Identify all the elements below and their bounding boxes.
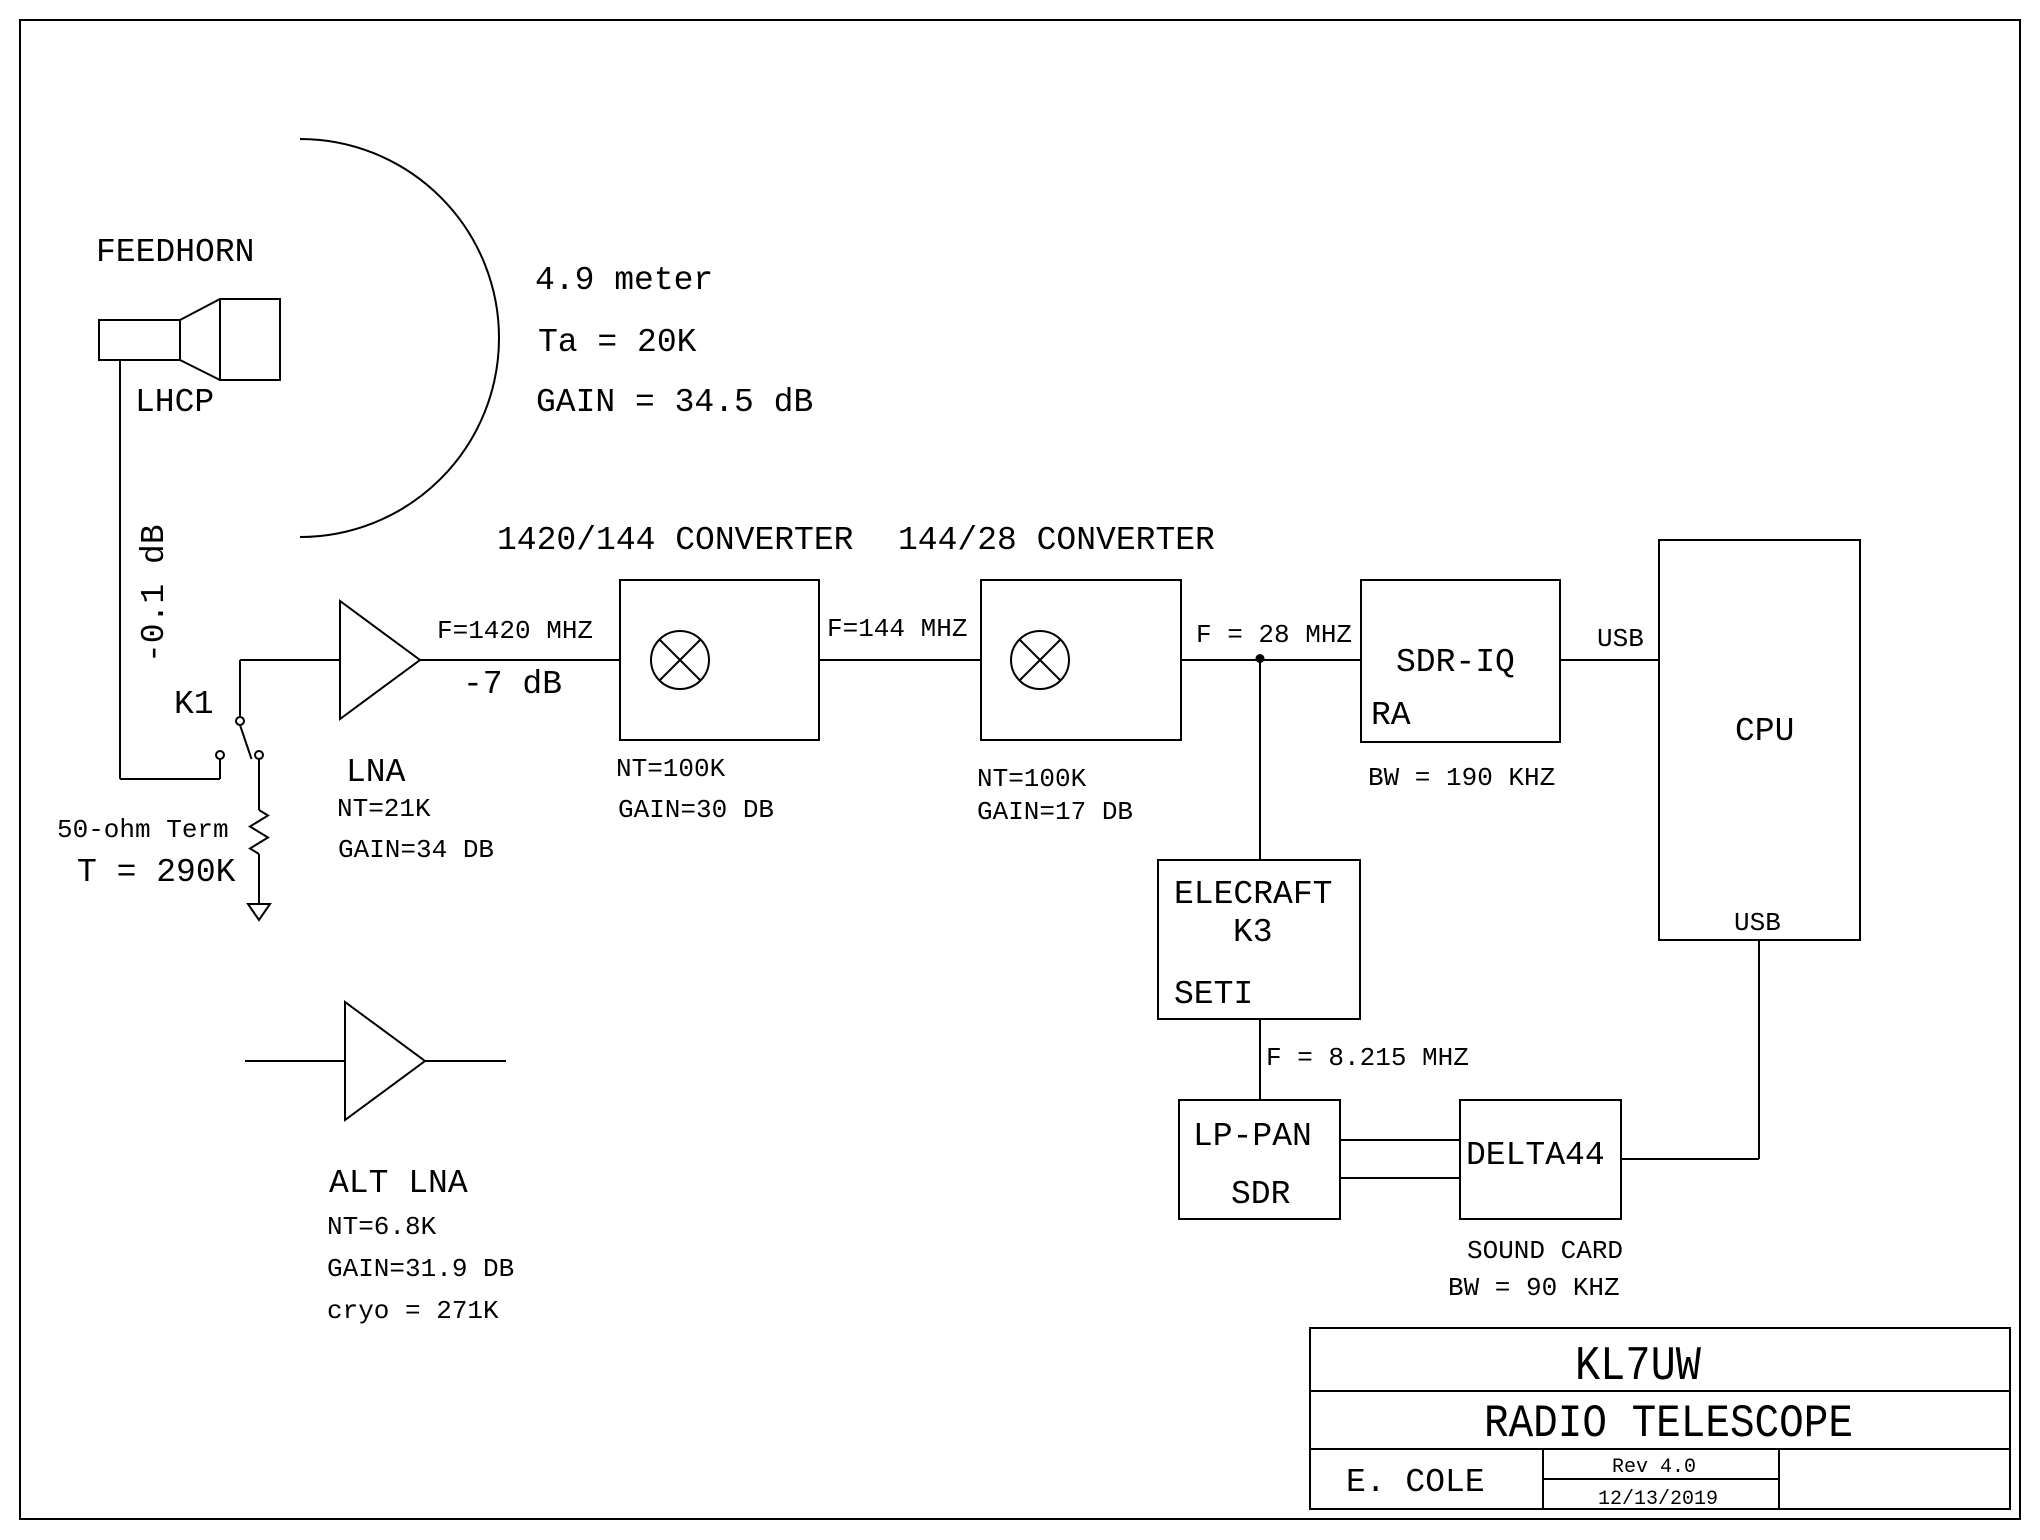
svg-text:SDR: SDR <box>1231 1176 1290 1213</box>
svg-text:SETI: SETI <box>1174 976 1253 1013</box>
wire ALT LNA input <box>245 1060 345 1062</box>
sound card DELTA44 box <box>1460 1100 1621 1219</box>
wire DELTA44 to CPU horizontal <box>1621 1158 1759 1160</box>
title block row line 2 <box>1310 1448 2010 1450</box>
svg-text:GAIN=30 DB: GAIN=30 DB <box>618 795 774 825</box>
junction node <box>1256 654 1265 663</box>
wire resistor top <box>258 759 260 810</box>
wire Elecraft to LP-PAN <box>1259 1019 1261 1100</box>
wire ALT LNA output <box>425 1060 506 1062</box>
svg-text:LHCP: LHCP <box>135 384 214 421</box>
svg-text:F = 28 MHZ: F = 28 MHZ <box>1196 620 1352 650</box>
mixer symbol converter 1 <box>651 631 709 689</box>
svg-text:1420/144 CONVERTER: 1420/144 CONVERTER <box>497 522 853 559</box>
svg-text:SOUND CARD: SOUND CARD <box>1467 1236 1623 1266</box>
svg-text:NT=100K: NT=100K <box>977 764 1087 794</box>
receiver SDR-IQ box <box>1361 580 1560 742</box>
wire junction down to Elecraft <box>1259 660 1261 860</box>
converter box 144/28 <box>981 580 1181 740</box>
svg-text:FEEDHORN: FEEDHORN <box>96 234 254 271</box>
switch K1 throw contact right <box>255 751 263 759</box>
svg-text:GAIN = 34.5 dB: GAIN = 34.5 dB <box>536 384 813 421</box>
wire USB SDR-IQ to CPU <box>1560 659 1659 661</box>
transceiver Elecraft K3 box <box>1158 860 1360 1019</box>
wire converter1 to converter2 <box>819 659 981 661</box>
svg-text:NT=100K: NT=100K <box>616 754 726 784</box>
svg-text:LP-PAN: LP-PAN <box>1193 1118 1312 1155</box>
wire LNA output <box>420 659 620 661</box>
svg-text:GAIN=17 DB: GAIN=17 DB <box>977 797 1133 827</box>
svg-text:cryo = 271K: cryo = 271K <box>327 1296 499 1326</box>
resistor 50-ohm terminator <box>250 810 268 854</box>
svg-text:12/13/2019: 12/13/2019 <box>1598 1488 1718 1511</box>
wire LP-PAN to DELTA44 lower <box>1340 1177 1460 1179</box>
svg-text:F=144 MHZ: F=144 MHZ <box>827 614 967 644</box>
svg-text:-0.1 dB: -0.1 dB <box>136 524 173 663</box>
svg-text:4.9 meter: 4.9 meter <box>535 262 713 299</box>
computer CPU box <box>1659 540 1860 940</box>
svg-text:ALT LNA: ALT LNA <box>329 1165 468 1202</box>
wire DELTA44 to CPU vertical USB <box>1758 940 1760 1159</box>
wire feedhorn down <box>119 360 121 779</box>
svg-text:ELECRAFT: ELECRAFT <box>1174 876 1332 913</box>
feedhorn body <box>99 299 280 380</box>
wire resistor bottom <box>258 854 260 904</box>
svg-text:BW = 90 KHZ: BW = 90 KHZ <box>1448 1273 1620 1303</box>
svg-text:144/28 CONVERTER: 144/28 CONVERTER <box>898 522 1215 559</box>
switch K1 throw contact left <box>216 751 224 759</box>
svg-text:RADIO TELESCOPE: RADIO TELESCOPE <box>1484 1399 1853 1451</box>
svg-text:USB: USB <box>1734 908 1781 938</box>
title block frame <box>1310 1328 2010 1509</box>
switch K1 arm <box>240 725 252 759</box>
title block row line 1 <box>1310 1390 2010 1392</box>
title block rev/date divider <box>1543 1478 1779 1480</box>
svg-text:T = 290K: T = 290K <box>77 854 236 891</box>
switch K1 pole contact <box>236 717 244 725</box>
svg-text:DELTA44: DELTA44 <box>1466 1137 1605 1174</box>
svg-text:BW = 190 KHZ: BW = 190 KHZ <box>1368 763 1555 793</box>
wire converter2 to SDR-IQ <box>1181 659 1361 661</box>
dish reflector arc <box>300 139 499 537</box>
svg-text:SDR-IQ: SDR-IQ <box>1396 644 1515 681</box>
wire LNA input <box>240 659 340 661</box>
amplifier LNA <box>340 601 420 719</box>
svg-text:E. COLE: E. COLE <box>1346 1464 1485 1501</box>
svg-text:GAIN=31.9 DB: GAIN=31.9 DB <box>327 1254 514 1284</box>
panadapter LP-PAN box <box>1179 1100 1340 1219</box>
converter box 1420/144 <box>620 580 819 740</box>
mixer symbol converter 2 <box>1011 631 1069 689</box>
title block column line right <box>1778 1449 1780 1509</box>
svg-text:-7 dB: -7 dB <box>463 666 562 703</box>
svg-text:GAIN=34 DB: GAIN=34 DB <box>338 835 494 865</box>
wire feedhorn to switch throw <box>120 778 220 780</box>
svg-text:F = 8.215 MHZ: F = 8.215 MHZ <box>1266 1043 1469 1073</box>
svg-text:K1: K1 <box>174 686 214 723</box>
svg-text:LNA: LNA <box>346 754 406 791</box>
title block column line left <box>1542 1449 1544 1509</box>
svg-text:KL7UW: KL7UW <box>1575 1340 1701 1394</box>
svg-text:USB: USB <box>1597 624 1644 654</box>
svg-text:CPU: CPU <box>1735 713 1794 750</box>
wire stub to throw contact <box>219 759 221 779</box>
svg-text:NT=6.8K: NT=6.8K <box>327 1212 437 1242</box>
svg-text:Ta = 20K: Ta = 20K <box>538 324 697 361</box>
svg-text:50-ohm Term: 50-ohm Term <box>57 815 229 845</box>
ground <box>248 904 270 920</box>
svg-text:NT=21K: NT=21K <box>337 794 431 824</box>
svg-text:RA: RA <box>1371 697 1411 734</box>
amplifier ALT LNA <box>345 1002 425 1120</box>
svg-text:Rev 4.0: Rev 4.0 <box>1612 1456 1696 1479</box>
svg-text:F=1420 MHZ: F=1420 MHZ <box>437 616 593 646</box>
svg-text:K3: K3 <box>1233 914 1273 951</box>
wire K1 pole up <box>239 660 241 717</box>
wire LP-PAN to DELTA44 upper <box>1340 1139 1460 1141</box>
